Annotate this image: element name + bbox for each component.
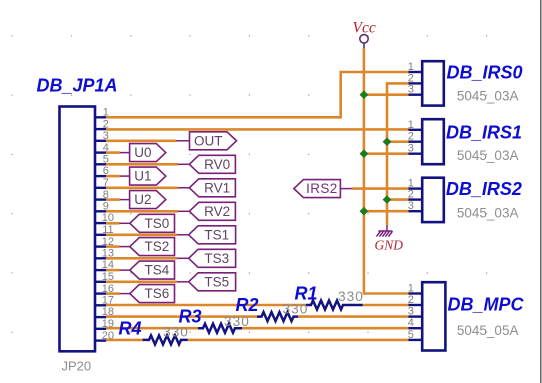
connector JP20 body [60, 107, 96, 352]
junction dots [360, 90, 392, 215]
wire pin8 to U2 [106, 198, 120, 201]
wire Vcc to DB_IRS2 pin3 [364, 210, 410, 213]
port RV1 [189, 179, 235, 197]
port OUT [190, 132, 237, 150]
svg-text:R1: R1 [295, 284, 318, 304]
resistor R1 [306, 301, 363, 310]
port TS1 [189, 226, 236, 244]
svg-text:TS5: TS5 [204, 274, 229, 289]
port U1 [130, 167, 166, 185]
svg-text:R4: R4 [119, 318, 142, 338]
junction GND rail / IRS2 pin2 [383, 195, 392, 204]
wire pin14 to TS4 [106, 269, 120, 272]
svg-text:DB_IRS1: DB_IRS1 [446, 123, 522, 143]
wire Vcc to DB_IRS1 pin3 [364, 152, 410, 155]
junction GND rail / IRS1 pin2 [383, 137, 392, 146]
wire pin6 to U1 [106, 175, 120, 178]
svg-text:DB_MPC: DB_MPC [448, 294, 525, 314]
wire pin12 to TS2 [106, 245, 120, 248]
ports [130, 132, 341, 303]
svg-text:Vcc: Vcc [353, 19, 376, 36]
svg-text:TS0: TS0 [145, 216, 170, 231]
svg-text:RV2: RV2 [204, 204, 230, 219]
svg-text:RV0: RV0 [204, 157, 230, 172]
wire pin11 to TS1 [106, 234, 177, 237]
svg-text:1: 1 [408, 61, 414, 73]
svg-text:IRS2: IRS2 [306, 181, 338, 196]
svg-text:5045_05A: 5045_05A [457, 323, 519, 338]
svg-text:2: 2 [408, 189, 414, 201]
svg-text:5045_03A: 5045_03A [457, 148, 519, 163]
svg-text:OUT: OUT [194, 133, 223, 148]
port RV0 [189, 155, 235, 173]
ground symbol [377, 225, 393, 237]
connector DB_MPC body [422, 282, 445, 350]
connector DB_MPC pins [409, 294, 423, 340]
port U0 [130, 144, 166, 162]
wire pin15 to TS5 [106, 280, 177, 283]
wire R4 to DB_MPC pin5 [188, 339, 410, 342]
svg-text:U0: U0 [134, 145, 151, 160]
svg-text:2: 2 [408, 72, 414, 84]
port TS5 [189, 273, 236, 291]
connector DB_IRS1 body [422, 119, 444, 164]
wire R1 to DB_MPC pin2 [363, 304, 410, 307]
svg-text:3: 3 [408, 200, 414, 212]
svg-text:330: 330 [163, 324, 189, 339]
wire pin3 to OUT [106, 140, 176, 143]
port TS3 [189, 249, 236, 267]
wire pin20 to R4 [106, 339, 143, 342]
junction Vcc / IRS2 pin3 [360, 207, 369, 216]
connector DB_IRS1 pin numbers [408, 119, 414, 155]
svg-text:TS1: TS1 [204, 227, 229, 242]
svg-text:1: 1 [408, 283, 414, 295]
svg-text:330: 330 [283, 302, 309, 317]
svg-text:TS3: TS3 [204, 251, 229, 266]
resistor R4 [143, 335, 188, 344]
svg-text:JP20: JP20 [62, 359, 92, 374]
wire pin5 to RV0 [106, 163, 178, 166]
wire pin4 to U0 [106, 151, 120, 154]
connector DB_MPC pin numbers [408, 283, 414, 341]
connector DB_IRS2 body [422, 178, 444, 222]
svg-text:2: 2 [408, 294, 414, 306]
svg-text:5045_03A: 5045_03A [457, 205, 519, 220]
svg-text:GND: GND [375, 238, 404, 253]
connector DB_IRS1 pins [409, 130, 423, 154]
wire pin10 to TS0 [106, 222, 120, 225]
junction Vcc / IRS0 pin3 [360, 90, 369, 99]
svg-text:3: 3 [408, 306, 414, 318]
connector DB_IRS2 pin numbers [408, 178, 414, 213]
junction Vcc / IRS1 pin3 [360, 149, 369, 158]
wire pin16 to TS6 [106, 292, 120, 295]
power symbol Vcc [360, 35, 368, 48]
svg-text:TS6: TS6 [145, 286, 170, 301]
svg-text:RV1: RV1 [204, 180, 230, 195]
svg-text:330: 330 [224, 314, 250, 329]
wire Vcc to DB_IRS0 pin3 [364, 93, 410, 96]
svg-text:DB_IRS2: DB_IRS2 [446, 179, 522, 199]
port lead wires [120, 141, 352, 294]
wire GND rail to DB_IRS2 pin2 [387, 198, 410, 201]
svg-text:3: 3 [408, 143, 414, 155]
wire R2 to DB_MPC pin3 [298, 315, 410, 318]
connector DB_IRS2 pins [409, 189, 423, 212]
connector DB_IRS0 pin numbers [408, 61, 414, 96]
svg-text:2: 2 [408, 131, 414, 143]
sheet right edge [540, 0, 542, 383]
svg-text:DB_JP1A: DB_JP1A [37, 75, 118, 95]
connector DB_IRS0 pins [409, 72, 423, 95]
resistor R3 [198, 324, 242, 333]
port RV2 [189, 202, 235, 220]
port U2 [130, 191, 166, 209]
wire GND rail to DB_IRS1 pin2 [387, 140, 410, 143]
svg-text:R2: R2 [236, 295, 259, 315]
port IRS2 [294, 180, 341, 198]
svg-text:U2: U2 [134, 192, 151, 207]
svg-text:5045_03A: 5045_03A [457, 89, 519, 104]
wire port IRS2 to DB_IRS2 pin1 [352, 187, 410, 190]
resistor R2 [257, 312, 298, 321]
port TS0 [130, 214, 175, 232]
svg-text:4: 4 [408, 317, 414, 329]
wire pin9 to RV2 [106, 210, 178, 213]
wire pin7 to RV1 [106, 187, 178, 190]
wire pin1 to DB_IRS0 pin1 [106, 72, 410, 117]
svg-text:3: 3 [408, 84, 414, 96]
wire GND rail [387, 83, 410, 225]
svg-text:TS2: TS2 [145, 239, 170, 254]
port TS6 [130, 285, 175, 303]
sheet grid dots [12, 35, 488, 333]
svg-text:5: 5 [408, 329, 414, 341]
wire pin13 to TS3 [106, 257, 177, 260]
wire pin18 to R2 [106, 315, 257, 318]
wire pin2 to DB_IRS1 pin1 [106, 128, 410, 131]
svg-text:U1: U1 [134, 169, 151, 184]
wire pin19 to R3 [106, 327, 198, 330]
port TS4 [130, 261, 175, 279]
svg-text:DB_IRS0: DB_IRS0 [447, 63, 523, 83]
connector DB_IRS0 body [422, 61, 444, 105]
svg-text:330: 330 [338, 289, 364, 304]
wire R3 to DB_MPC pin4 [242, 327, 410, 330]
svg-text:R3: R3 [179, 306, 202, 326]
connector JP20 pin numbers [102, 107, 114, 342]
port TS2 [130, 238, 175, 256]
svg-text:1: 1 [408, 119, 414, 131]
svg-text:TS4: TS4 [145, 263, 170, 278]
wire Vcc rail to DB_MPC pin1 [364, 48, 410, 294]
wire pin17 to R1 [106, 304, 306, 307]
connector JP20 pin stubs [95, 117, 106, 340]
